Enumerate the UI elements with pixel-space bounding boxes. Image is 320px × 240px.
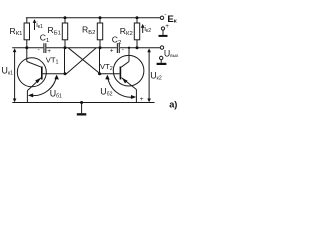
wire bottom ground rail [12,102,154,104]
svg-text:RК2: RК2 [120,26,133,37]
wire middle horizontal (collector VT1 to C1) [12,47,43,49]
wire middle horizontal (C1 to C2) [46,47,116,49]
current arrow ik2 [141,24,145,33]
svg-text:-: - [38,47,40,54]
svg-text:RБ2: RБ2 [82,25,95,36]
transistor VT1 [17,48,65,103]
wire top supply rail [26,17,160,19]
wire cross-coupling left node to base VT2 [68,48,101,75]
voltage arrow Uk1 [13,48,17,102]
svg-text:VT2: VT2 [100,62,113,72]
svg-text:iк1: iк1 [36,22,43,30]
voltage arc Ub1 [28,75,59,98]
svg-text:Uб1: Uб1 [50,89,62,100]
terminal plus with ground [159,27,168,37]
svg-text:C2: C2 [112,35,122,46]
svg-text:+: + [47,48,51,55]
svg-text:+: + [140,96,144,103]
current arrow ik1 [33,19,37,30]
resistor RK1 [24,18,29,48]
node dot collector VT2 [128,47,130,49]
node dot base VT2 [98,72,101,75]
terminal output ground [157,56,167,65]
svg-text:-: - [122,47,124,54]
voltage arc Ub2 [105,75,136,99]
resistor RB1 [62,18,67,48]
voltage arrow Uk2 [147,48,151,102]
wire RB1 node down to base VT1 [64,48,66,74]
wire cross-coupling right node to base VT1 [66,48,96,74]
node dot RB2 top [99,16,102,19]
transistor VT2 [100,48,144,103]
svg-text:-: - [165,13,167,19]
node dot RB1 bottom [64,46,67,49]
node dot RK2 bottom [136,46,139,49]
wire RB2 node down to base VT2 [99,48,101,74]
svg-text:iк2: iк2 [144,26,151,34]
terminal Uvyh output [160,46,163,49]
capacitor C1 [43,43,46,53]
svg-text:RБ1: RБ1 [48,25,61,36]
wire middle horizontal (C2 to output terminal) [120,47,160,49]
svg-text:а): а) [169,99,177,109]
resistor RK2 [134,18,139,48]
svg-text:Uб2: Uб2 [100,87,112,98]
svg-text:RК1: RК1 [10,26,23,37]
node dot RB1 top [64,16,67,19]
capacitor C2 [117,43,120,53]
ground symbol bottom center [77,101,87,116]
node dot base VT1 [64,72,67,75]
svg-text:Uвых: Uвых [164,48,179,58]
svg-text:+: + [110,47,114,54]
svg-text:Uк1: Uк1 [2,66,14,77]
node dot RK2 top [136,16,139,19]
svg-text:VT1: VT1 [46,56,59,66]
node dot collector VT1 [25,46,28,49]
svg-text:Uк2: Uк2 [150,71,162,82]
node dot RB2 bottom [99,46,102,49]
terminal Ek minus [160,16,163,19]
svg-text:+: + [165,23,169,30]
resistor RB2 [97,18,102,48]
